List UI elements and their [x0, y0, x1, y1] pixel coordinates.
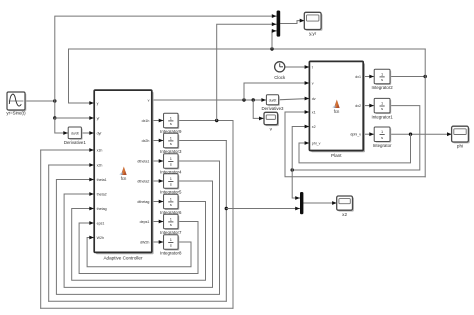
integrator Integrator4	[160, 154, 182, 175]
subsystem Plant	[309, 61, 365, 152]
node x1h junction to top mux	[215, 119, 218, 122]
svg-text:Adaptive Controller: Adaptive Controller	[103, 256, 143, 261]
port labels of Plant outputs	[350, 75, 361, 137]
node v branch to scope v	[252, 98, 255, 101]
wire Integrator1 output x2 loop	[292, 106, 420, 170]
wire x1h loop left riser	[40, 150, 42, 308]
wire plant output dx2 to Integrator1	[363, 105, 374, 107]
clock block	[274, 62, 286, 80]
wire Integrator4 output theta1 loop	[56, 161, 219, 294]
wire controller output v main line	[152, 99, 266, 101]
fcn icon of Plant	[332, 100, 340, 115]
mux for scope y,yr	[277, 11, 281, 37]
wire v down to scope v	[253, 100, 263, 118]
wire controller output dthetag to Integrator6	[152, 201, 164, 203]
svg-text:s: s	[381, 77, 383, 82]
svg-text:theta1: theta1	[97, 178, 107, 182]
integrator Integrator5	[160, 174, 182, 195]
node x2h branch to mux x2	[225, 207, 228, 210]
svg-text:Integrator8: Integrator8	[160, 251, 182, 256]
svg-text:Integrator: Integrator	[373, 143, 392, 148]
wire controller output dW2h to Integrator8	[152, 241, 164, 243]
integrator Integrator2	[371, 69, 393, 90]
derivative block Derivative3	[262, 95, 285, 111]
wire mux x2 output to scope x2	[304, 202, 337, 204]
wire v up to plant input v	[244, 83, 309, 100]
wire x1 feedback down right side	[424, 77, 426, 177]
node phi_v junction	[409, 133, 412, 136]
wire Integrator3 output x2h	[178, 140, 226, 142]
svg-text:W2h: W2h	[97, 236, 104, 240]
svg-text:1: 1	[170, 237, 172, 242]
svg-text:v: v	[312, 81, 314, 85]
svg-text:dphi_v: dphi_v	[350, 133, 361, 137]
scope y,yr	[304, 12, 322, 36]
wire y feedback: long line y=49 from x1 riser to controller input y	[69, 49, 426, 103]
wire yr riser up to mux y,yr input 1	[55, 16, 277, 101]
svg-text:Integrator2: Integrator2	[371, 85, 393, 90]
svg-text:s: s	[170, 141, 172, 146]
svg-text:x1h: x1h	[97, 148, 103, 152]
svg-text:Plant: Plant	[331, 153, 342, 158]
svg-text:1: 1	[170, 176, 172, 181]
wire plant output dx1 to Integrator2	[363, 76, 374, 78]
wire x2h loop bottom	[49, 300, 227, 302]
arrowheads into blocks	[63, 14, 451, 244]
wire x1 riser up to y-line	[424, 49, 426, 77]
svg-text:Derivative1: Derivative1	[64, 140, 87, 145]
wire Integrator output phi_v to scope phi	[390, 133, 451, 135]
wire x1h to controller input x1h	[41, 149, 94, 151]
svg-text:theta2: theta2	[97, 192, 107, 196]
svg-text:phi_v: phi_v	[312, 141, 321, 145]
svg-text:x2: x2	[312, 125, 316, 129]
node yr junction A	[53, 99, 56, 102]
svg-text:1: 1	[170, 216, 172, 221]
wire x2 down to mux x2 input 1	[292, 170, 300, 198]
wire x1h riser to mux y,yr input 2	[217, 24, 277, 120]
svg-text:dthetag: dthetag	[137, 200, 149, 204]
svg-text:1: 1	[381, 71, 383, 76]
source block yr=Sine(t)	[6, 92, 26, 116]
svg-text:x2: x2	[342, 212, 347, 217]
svg-text:1: 1	[381, 129, 383, 134]
svg-text:s: s	[170, 182, 172, 187]
svg-text:s: s	[170, 202, 172, 207]
wire x2h to controller input x2h	[49, 164, 94, 166]
wire controller output dtheta1 to Integrator4	[152, 160, 164, 162]
svg-text:s: s	[381, 135, 383, 140]
wire x2 up to plant input x2	[292, 127, 309, 171]
svg-text:dyr: dyr	[97, 131, 103, 135]
wire Clock to plant input t	[285, 66, 309, 68]
scope v	[264, 112, 279, 131]
wire Integrator8 output W2h loop	[87, 238, 191, 267]
integrator Integrator7	[160, 214, 182, 235]
node v branch to plant input v	[242, 98, 245, 101]
wire Integrator6 output thetag loop	[72, 202, 206, 281]
svg-text:1: 1	[170, 115, 172, 120]
mux for scope x2	[300, 192, 303, 214]
port labels of Plant inputs	[312, 65, 321, 145]
svg-text:s: s	[381, 106, 383, 111]
wire x2h loop right vertical	[225, 141, 227, 302]
svg-text:t: t	[312, 65, 313, 69]
svg-text:x2h: x2h	[97, 163, 103, 167]
svg-text:dx1: dx1	[355, 75, 361, 79]
node x2 junction	[291, 168, 294, 171]
svg-text:1: 1	[170, 156, 172, 161]
wire x2h loop left riser	[48, 165, 50, 301]
node yr junction B	[53, 116, 56, 119]
svg-text:du/dt: du/dt	[71, 131, 79, 135]
wire plant output dphi_v to Integrator	[363, 133, 374, 135]
derivative block Derivative1	[64, 127, 87, 145]
svg-text:dv: dv	[312, 97, 316, 101]
integrator Integrator8	[160, 235, 182, 256]
svg-text:1: 1	[170, 196, 172, 201]
wire phi_v feedback loop to plant input phi_v	[299, 134, 411, 163]
integrator Integrator3	[160, 133, 182, 154]
svg-text:dx2: dx2	[355, 104, 361, 108]
wire controller output dx2h to Integrator3	[152, 140, 164, 142]
wire yr down to Derivative1	[55, 118, 68, 133]
node y-line to mux riser junction	[270, 47, 273, 50]
svg-text:eps1: eps1	[97, 221, 105, 225]
svg-text:dx1h: dx1h	[142, 119, 150, 123]
svg-text:y,yr: y,yr	[309, 31, 317, 36]
wire x1h loop right vertical	[232, 121, 234, 309]
wire x1h loop bottom	[41, 307, 233, 309]
wire Integrator7 output eps1 loop	[79, 222, 198, 274]
svg-text:dW2h: dW2h	[140, 240, 149, 244]
svg-text:Integrator1: Integrator1	[371, 114, 393, 119]
wire controller output dtheta2 to Integrator5	[152, 180, 164, 182]
svg-text:y: y	[97, 101, 99, 105]
wire Integrator5 output theta2 loop	[64, 181, 212, 287]
svg-text:s: s	[170, 162, 172, 167]
port labels of Adaptive Controller inputs	[97, 101, 107, 240]
svg-text:Derivative3: Derivative3	[262, 106, 285, 111]
svg-text:s: s	[170, 121, 172, 126]
wire Derivative1 output to controller input dyr	[81, 132, 94, 134]
node x1 junction	[424, 75, 427, 78]
svg-text:fcn: fcn	[334, 109, 340, 114]
wire Integrator2 output x1	[390, 76, 425, 78]
integrator Integrator6	[160, 194, 182, 215]
wire Integrator9 output x1h	[178, 120, 233, 122]
svg-text:s: s	[170, 222, 172, 227]
wire yr: sine output to junction	[25, 100, 55, 102]
wire yr to controller input yr	[55, 117, 94, 119]
scope x2	[337, 196, 354, 217]
integrator Integrator	[373, 127, 392, 148]
svg-text:s: s	[170, 243, 172, 248]
svg-text:1: 1	[170, 135, 172, 140]
wire controller output dx1h to Integrator9	[152, 120, 164, 122]
wire Derivative3 output dv to plant input dv	[278, 99, 309, 100]
svg-text:1: 1	[381, 100, 383, 105]
fcn icon of Adaptive Controller	[119, 167, 127, 182]
wire x1 feedback bottom to plant input x1	[285, 112, 425, 177]
svg-text:dtheta2: dtheta2	[137, 179, 149, 183]
svg-text:dx2h: dx2h	[142, 139, 150, 143]
svg-text:v: v	[148, 98, 150, 102]
wire controller output deps1 to Integrator7	[152, 221, 164, 223]
wire yr down-branch	[54, 101, 56, 118]
wire mux y,yr output to scope y,yr	[281, 21, 305, 24]
integrator Integrator1	[371, 98, 393, 119]
wire riser up to mux y,yr input 3	[272, 31, 276, 49]
svg-text:deps1: deps1	[140, 220, 150, 224]
svg-text:du/dt: du/dt	[269, 98, 277, 102]
integrator Integrator9	[160, 113, 182, 134]
svg-text:yr=Sine(t): yr=Sine(t)	[6, 111, 26, 116]
svg-text:thetag: thetag	[97, 207, 107, 211]
svg-text:dtheta1: dtheta1	[137, 159, 149, 163]
svg-text:phi: phi	[457, 144, 463, 149]
svg-text:fcn: fcn	[121, 176, 127, 181]
svg-text:x1: x1	[312, 110, 316, 114]
subsystem Adaptive Controller	[94, 90, 153, 254]
wire x2h to mux x2 input 2	[226, 208, 299, 210]
svg-text:Clock: Clock	[274, 75, 286, 80]
scope phi	[452, 126, 470, 148]
port labels of Adaptive Controller outputs	[137, 98, 149, 244]
